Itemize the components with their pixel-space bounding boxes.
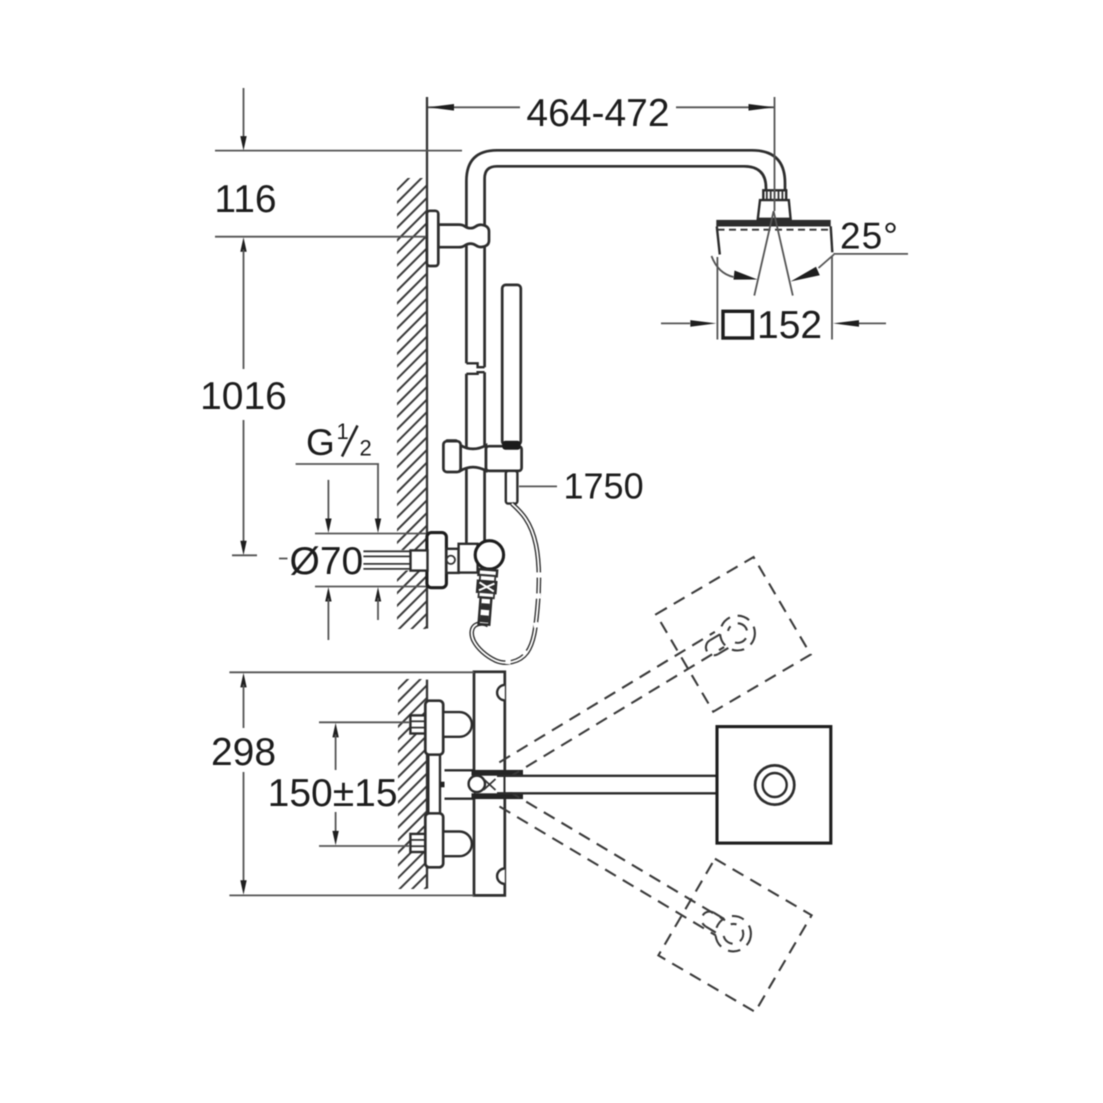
dimension square-152: [716, 257, 718, 340]
dimension 1016: [243, 250, 245, 370]
svg-text:2: 2: [360, 436, 372, 461]
svg-text:116: 116: [214, 178, 276, 221]
swivel arm (plan): [506, 777, 756, 793]
upper supply connection (plan): [410, 715, 425, 733]
valve hose outlet: [475, 569, 498, 625]
right tilt arrow + 25deg leader: [819, 255, 834, 269]
hand shower hose (loop): [472, 504, 539, 663]
left tilt arrow: [712, 256, 734, 277]
wall (front view, hatched): [393, 97, 427, 711]
shower arm pipe (top): [466, 150, 785, 228]
valve body: [459, 544, 478, 573]
svg-text:1: 1: [337, 419, 349, 444]
dashed head square (lower position): [658, 859, 811, 1012]
lower supply connection (plan): [410, 834, 425, 852]
svg-text:25°: 25°: [840, 216, 899, 257]
valve body (plan): [474, 672, 505, 896]
svg-text:298: 298: [211, 731, 276, 774]
dimension 298: [229, 671, 474, 673]
wall bracket: [438, 225, 489, 248]
dashed swivel arm (lower position): [499, 791, 725, 935]
dashed head square (upper position): [656, 557, 811, 712]
dimension diameter 70: [315, 533, 426, 535]
dimension 464-472: [428, 106, 520, 108]
thermostat valve escutcheon: [427, 533, 447, 588]
hand shower holder on rail: [445, 439, 458, 444]
dimension 150 +/- 15: [319, 721, 409, 723]
shower head plate: [716, 220, 830, 227]
svg-text:152: 152: [757, 304, 822, 347]
wall (plan view, hatched): [393, 660, 427, 971]
svg-text:G: G: [306, 422, 335, 463]
swivel arm pivot: [445, 770, 475, 798]
label 1750 (hose length): [519, 485, 557, 487]
dashed swivel arm (upper position): [499, 632, 724, 778]
svg-text:150±15: 150±15: [268, 772, 398, 815]
spray angle lines 25deg: [754, 211, 773, 295]
mounting plate centre bar (plan): [428, 755, 440, 814]
svg-text:1016: 1016: [200, 375, 287, 418]
hand shower hose connector: [506, 471, 518, 504]
svg-text:1750: 1750: [564, 466, 644, 507]
dimension 116: [243, 88, 245, 139]
head connection nut: [763, 190, 786, 200]
G1/2 supply nipple: [363, 550, 427, 571]
svg-text:Ø70: Ø70: [290, 540, 364, 583]
valve knob: [475, 541, 503, 569]
hand shower wand: [502, 285, 521, 445]
head adapter: [758, 200, 791, 219]
vertical rail pipe: [465, 226, 468, 363]
head side walls: [717, 227, 720, 255]
valve connector: [446, 549, 458, 573]
head square (solid, plan): [717, 727, 831, 844]
svg-text:464-472: 464-472: [526, 92, 669, 135]
